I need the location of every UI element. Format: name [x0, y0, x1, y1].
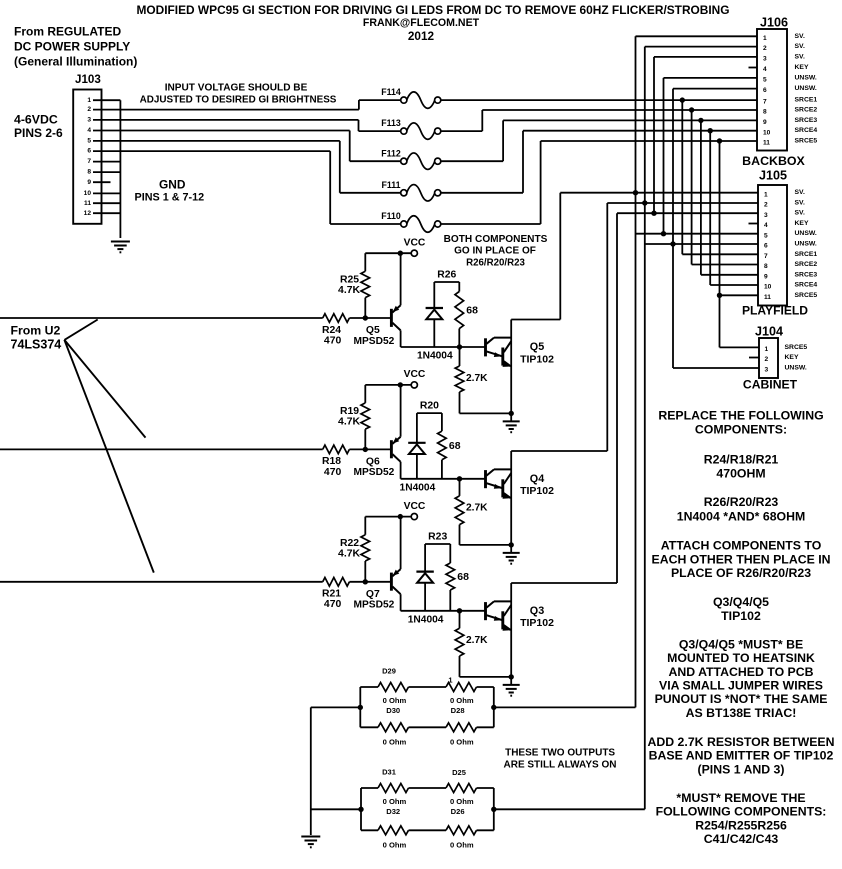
svg-text:74LS374: 74LS374: [11, 338, 62, 352]
svg-text:FOLLOWING COMPONENTS:: FOLLOWING COMPONENTS:: [656, 805, 827, 819]
svg-text:R25: R25: [340, 274, 359, 285]
svg-text:4.7K: 4.7K: [338, 417, 360, 428]
svg-text:MPSD52: MPSD52: [354, 600, 395, 611]
svg-text:3: 3: [765, 367, 769, 374]
svg-text:F112: F112: [381, 148, 401, 158]
svg-text:8: 8: [763, 109, 767, 116]
svg-text:10: 10: [84, 190, 92, 197]
svg-text:0 Ohm: 0 Ohm: [450, 737, 474, 746]
svg-text:5: 5: [87, 138, 91, 145]
svg-text:MPSD52: MPSD52: [354, 336, 395, 347]
svg-text:MODIFIED WPC95 GI SECTION FOR: MODIFIED WPC95 GI SECTION FOR DRIVING GI…: [136, 3, 729, 17]
svg-text:8: 8: [87, 169, 91, 176]
svg-text:6: 6: [87, 148, 91, 155]
svg-text:SV.: SV.: [795, 43, 805, 50]
svg-text:R20: R20: [420, 400, 439, 411]
svg-text:TIP102: TIP102: [520, 485, 554, 497]
svg-text:F111: F111: [381, 180, 400, 190]
svg-text:R18: R18: [322, 456, 341, 467]
svg-text:BOTH COMPONENTS: BOTH COMPONENTS: [444, 234, 548, 245]
svg-text:ADD 2.7K RESISTOR BETWEEN: ADD 2.7K RESISTOR BETWEEN: [648, 735, 835, 749]
svg-text:SRCE3: SRCE3: [795, 271, 818, 278]
svg-text:(PINS 1 AND 3): (PINS 1 AND 3): [697, 762, 784, 776]
svg-text:AND ATTACHED TO PCB: AND ATTACHED TO PCB: [668, 665, 813, 679]
svg-text:Q3: Q3: [530, 605, 544, 617]
svg-text:R26/R20/R23: R26/R20/R23: [704, 495, 779, 509]
svg-text:AS BT138E TRIAC!: AS BT138E TRIAC!: [686, 706, 797, 720]
svg-text:Q6: Q6: [366, 456, 380, 467]
svg-text:MOUNTED TO HEATSINK: MOUNTED TO HEATSINK: [667, 651, 815, 665]
svg-text:1: 1: [765, 346, 769, 353]
svg-text:7: 7: [764, 253, 768, 260]
svg-text:5: 5: [764, 232, 768, 239]
svg-text:SV.: SV.: [795, 210, 805, 217]
svg-text:2.7K: 2.7K: [466, 635, 488, 646]
svg-text:KEY: KEY: [785, 354, 799, 361]
svg-text:3: 3: [764, 212, 768, 219]
svg-text:J104: J104: [755, 325, 783, 339]
svg-text:1N4004: 1N4004: [417, 351, 453, 362]
svg-text:UNSW.: UNSW.: [795, 74, 817, 81]
svg-text:9: 9: [87, 179, 91, 186]
svg-text:2: 2: [87, 106, 91, 113]
svg-text:1N4004 *AND* 68OHM: 1N4004 *AND* 68OHM: [677, 510, 806, 524]
svg-text:Q3/Q4/Q5: Q3/Q4/Q5: [713, 595, 769, 609]
svg-text:J103: J103: [75, 73, 101, 86]
svg-text:Q3/Q4/Q5 *MUST* BE: Q3/Q4/Q5 *MUST* BE: [679, 637, 803, 651]
svg-text:VCC: VCC: [404, 369, 426, 380]
svg-text:D29: D29: [382, 666, 396, 675]
svg-text:F114: F114: [381, 87, 401, 97]
svg-text:From U2: From U2: [11, 323, 61, 337]
svg-text:9: 9: [763, 119, 767, 126]
svg-text:GO IN PLACE OF: GO IN PLACE OF: [454, 246, 536, 257]
svg-text:PUNOUT IS *NOT* THE SAME: PUNOUT IS *NOT* THE SAME: [655, 692, 828, 706]
svg-text:*MUST* REMOVE THE: *MUST* REMOVE THE: [676, 791, 805, 805]
svg-text:D30: D30: [386, 706, 400, 715]
svg-text:ADJUSTED TO DESIRED GI BRIGHTN: ADJUSTED TO DESIRED GI BRIGHTNESS: [140, 95, 337, 106]
svg-text:ATTACH COMPONENTS TO: ATTACH COMPONENTS TO: [661, 539, 822, 553]
svg-text:4: 4: [764, 222, 768, 229]
svg-text:2.7K: 2.7K: [466, 373, 488, 384]
svg-text:VIA SMALL JUMPER WIRES: VIA SMALL JUMPER WIRES: [659, 679, 823, 693]
svg-text:(General Illumination): (General Illumination): [14, 55, 137, 69]
svg-text:4: 4: [87, 127, 91, 134]
svg-text:0 Ohm: 0 Ohm: [450, 797, 474, 806]
svg-text:10: 10: [763, 129, 771, 136]
svg-text:68: 68: [449, 440, 461, 452]
svg-text:0 Ohm: 0 Ohm: [383, 737, 407, 746]
svg-text:F110: F110: [381, 211, 401, 221]
svg-text:VCC: VCC: [404, 501, 426, 512]
svg-text:1: 1: [764, 191, 768, 198]
svg-text:ARE STILL ALWAYS ON: ARE STILL ALWAYS ON: [504, 759, 617, 770]
svg-text:SRCE5: SRCE5: [795, 138, 818, 145]
svg-text:470: 470: [324, 599, 342, 610]
svg-text:DC POWER SUPPLY: DC POWER SUPPLY: [14, 40, 130, 54]
svg-text:UNSW.: UNSW.: [795, 241, 817, 248]
svg-text:470OHM: 470OHM: [716, 466, 765, 480]
svg-text:470: 470: [324, 467, 342, 478]
svg-text:2012: 2012: [408, 29, 435, 43]
svg-text:R21: R21: [322, 589, 341, 600]
svg-text:PLAYFIELD: PLAYFIELD: [742, 304, 808, 318]
svg-text:3: 3: [763, 56, 767, 63]
svg-text:D31: D31: [382, 767, 396, 776]
svg-text:R19: R19: [340, 406, 359, 417]
svg-text:SV.: SV.: [795, 53, 805, 60]
svg-text:J106: J106: [760, 16, 788, 30]
svg-text:4: 4: [763, 66, 767, 73]
svg-text:2.7K: 2.7K: [466, 503, 488, 514]
svg-text:F113: F113: [381, 118, 401, 128]
svg-text:68: 68: [457, 571, 469, 583]
svg-text:4-6VDC: 4-6VDC: [14, 112, 58, 126]
svg-text:1N4004: 1N4004: [400, 482, 436, 493]
svg-text:THESE TWO OUTPUTS: THESE TWO OUTPUTS: [505, 748, 615, 759]
svg-text:R254/R255R256: R254/R255R256: [695, 818, 787, 832]
svg-text:SRCE3: SRCE3: [795, 117, 818, 124]
svg-text:Q5: Q5: [530, 341, 544, 353]
svg-text:68: 68: [466, 305, 478, 317]
svg-text:3: 3: [87, 117, 91, 124]
svg-text:C41/C42/C43: C41/C42/C43: [704, 832, 779, 846]
svg-text:UNSW.: UNSW.: [795, 230, 817, 237]
svg-text:PINS 1 & 7-12: PINS 1 & 7-12: [135, 192, 205, 204]
svg-text:0 Ohm: 0 Ohm: [450, 696, 474, 705]
svg-text:FRANK@FLECOM.NET: FRANK@FLECOM.NET: [363, 17, 480, 29]
svg-text:11: 11: [764, 294, 771, 301]
svg-text:Q5: Q5: [366, 325, 380, 336]
svg-text:BASE AND EMITTER OF TIP102: BASE AND EMITTER OF TIP102: [649, 749, 834, 763]
svg-text:Q7: Q7: [366, 589, 380, 600]
svg-text:INPUT VOLTAGE SHOULD BE: INPUT VOLTAGE SHOULD BE: [165, 82, 308, 93]
svg-text:11: 11: [84, 200, 91, 207]
svg-text:0 Ohm: 0 Ohm: [383, 696, 407, 705]
svg-text:D28: D28: [451, 706, 465, 715]
svg-text:10: 10: [764, 284, 772, 291]
svg-text:TIP102: TIP102: [520, 617, 554, 629]
svg-text:2: 2: [764, 202, 768, 209]
svg-text:PINS 2-6: PINS 2-6: [14, 126, 63, 140]
svg-text:UNSW.: UNSW.: [795, 85, 817, 92]
svg-text:0 Ohm: 0 Ohm: [383, 797, 407, 806]
svg-text:UNSW.: UNSW.: [785, 365, 807, 372]
svg-text:R22: R22: [340, 538, 359, 549]
svg-text:R26/R20/R23: R26/R20/R23: [466, 258, 525, 269]
svg-text:Q4: Q4: [530, 473, 544, 485]
svg-text:2: 2: [763, 45, 767, 52]
svg-text:SRCE5: SRCE5: [795, 292, 818, 299]
svg-text:KEY: KEY: [795, 64, 809, 71]
svg-text:SRCE2: SRCE2: [795, 107, 818, 114]
svg-text:SRCE2: SRCE2: [795, 261, 818, 268]
svg-text:7: 7: [87, 158, 91, 165]
svg-text:0 Ohm: 0 Ohm: [383, 840, 407, 849]
svg-text:CABINET: CABINET: [743, 378, 798, 392]
svg-text:VCC: VCC: [404, 237, 426, 248]
svg-text:PLACE OF R26/R20/R23: PLACE OF R26/R20/R23: [671, 566, 811, 580]
svg-text:COMPONENTS:: COMPONENTS:: [695, 422, 787, 436]
svg-text:EACH OTHER THEN PLACE IN: EACH OTHER THEN PLACE IN: [652, 552, 831, 566]
svg-text:470: 470: [324, 335, 342, 346]
svg-text:SRCE1: SRCE1: [795, 251, 818, 258]
svg-text:J105: J105: [759, 169, 787, 183]
svg-text:D32: D32: [386, 807, 400, 816]
svg-text:REPLACE THE FOLLOWING: REPLACE THE FOLLOWING: [658, 409, 823, 423]
svg-text:From REGULATED: From REGULATED: [14, 25, 121, 39]
svg-text:6: 6: [764, 243, 768, 250]
svg-text:2: 2: [765, 356, 769, 363]
svg-text:9: 9: [764, 273, 768, 280]
svg-text:TIP102: TIP102: [721, 609, 761, 623]
svg-text:4.7K: 4.7K: [338, 285, 360, 296]
svg-text:4.7K: 4.7K: [338, 549, 360, 560]
svg-text:11: 11: [763, 140, 770, 147]
svg-text:1: 1: [87, 97, 91, 104]
svg-text:R24/R18/R21: R24/R18/R21: [704, 453, 779, 467]
svg-text:SRCE4: SRCE4: [795, 127, 818, 134]
svg-text:SRCE4: SRCE4: [795, 282, 818, 289]
svg-text:GND: GND: [159, 178, 186, 192]
svg-text:5: 5: [763, 77, 767, 84]
svg-text:12: 12: [84, 210, 92, 217]
svg-text:TIP102: TIP102: [520, 353, 554, 365]
svg-text:SRCE1: SRCE1: [795, 97, 818, 104]
svg-text:MPSD52: MPSD52: [354, 467, 395, 478]
svg-text:SV.: SV.: [795, 200, 805, 207]
svg-text:1: 1: [448, 675, 452, 684]
svg-text:1N4004: 1N4004: [408, 614, 444, 625]
svg-text:R24: R24: [322, 325, 341, 336]
svg-text:6: 6: [763, 87, 767, 94]
svg-text:R23: R23: [428, 531, 447, 542]
svg-text:SRCE5: SRCE5: [785, 344, 808, 351]
svg-text:R26: R26: [437, 269, 456, 280]
svg-text:BACKBOX: BACKBOX: [742, 154, 805, 168]
svg-text:D26: D26: [451, 807, 465, 816]
svg-text:KEY: KEY: [795, 220, 809, 227]
svg-text:SV.: SV.: [795, 189, 805, 196]
svg-text:7: 7: [763, 99, 767, 106]
svg-text:1: 1: [763, 35, 767, 42]
svg-text:D25: D25: [452, 768, 466, 777]
svg-text:SV.: SV.: [795, 33, 805, 40]
svg-text:8: 8: [764, 263, 768, 270]
svg-text:0 Ohm: 0 Ohm: [450, 840, 474, 849]
